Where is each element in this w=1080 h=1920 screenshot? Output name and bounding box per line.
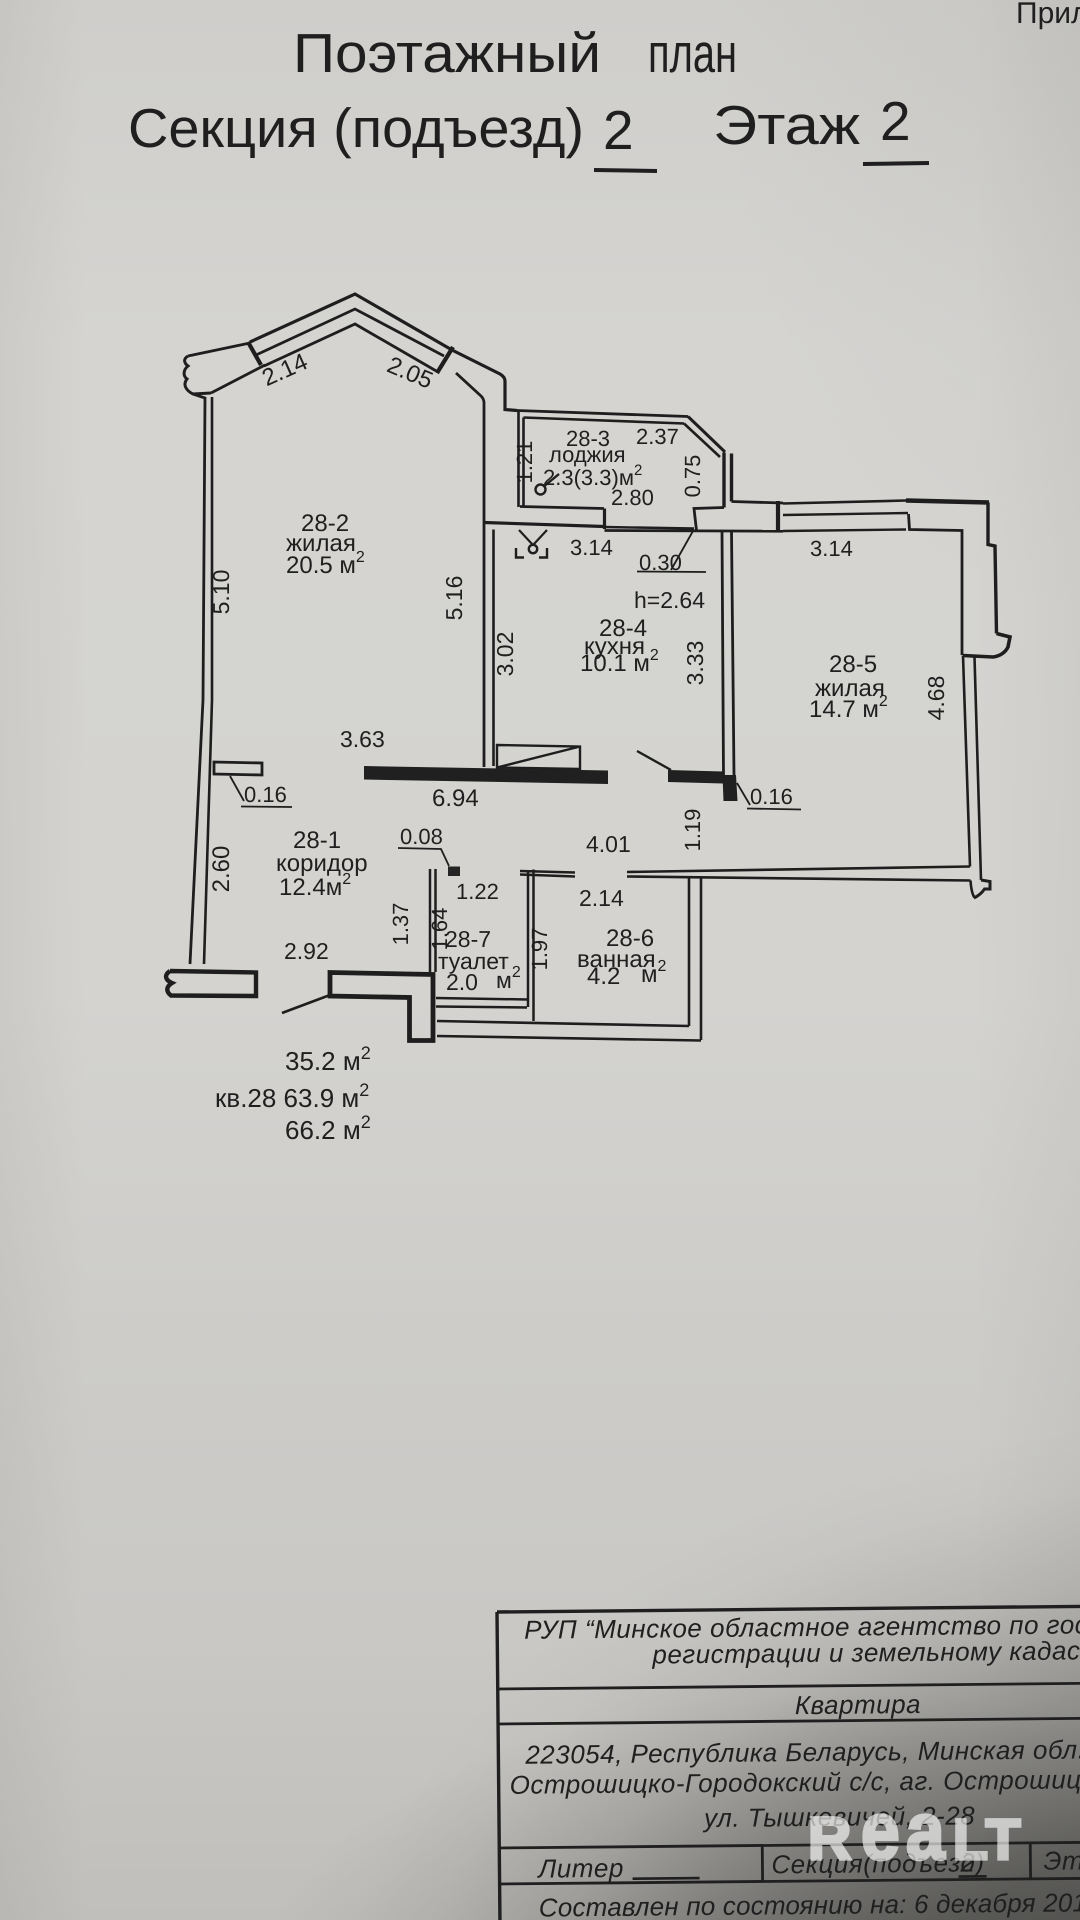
bath top wall left bar (520, 871, 575, 877)
kitchen right wall line 2 (732, 531, 735, 775)
svg-text:Квартира: Квартира (795, 1689, 922, 1720)
svg-text:кв.28 63.9 м2: кв.28 63.9 м2 (215, 1080, 369, 1113)
28-5 right outer wall with jog (988, 503, 997, 634)
kitchen right wall line 1 (722, 531, 724, 775)
0.08 wall stub (448, 867, 460, 877)
loggia bottom outer line (484, 523, 604, 527)
bath bottom wall line 1 (437, 1021, 689, 1026)
svg-text:2.92: 2.92 (284, 938, 329, 964)
svg-text:20.5 м2: 20.5 м2 (286, 549, 365, 579)
bath right wall outer line (700, 877, 703, 1040)
28-5 bottom wall top line (627, 867, 970, 873)
svg-text:0.16: 0.16 (750, 784, 793, 809)
kitchen door stub filled bar (668, 770, 723, 784)
svg-text:1.21: 1.21 (512, 441, 537, 484)
28-5 bottom wall bottom line (627, 877, 971, 881)
svg-text:Секция (подъезд): Секция (подъезд) (128, 97, 584, 159)
underline under first 2 (594, 170, 657, 171)
svg-text:Литер: Литер (536, 1853, 624, 1884)
watermark Realt (808, 1786, 1022, 1877)
bottom-right corner hook (974, 880, 990, 898)
balcony door jamb brackets (516, 548, 547, 558)
4.68 wall outer line (975, 657, 982, 880)
toilet left wall lines (430, 869, 436, 972)
table left border (497, 1612, 500, 1920)
28-5 window end tick (776, 501, 780, 532)
svg-text:3.14: 3.14 (810, 536, 853, 561)
left inner wall line (204, 397, 212, 964)
svg-text:4.68: 4.68 (923, 676, 949, 721)
table divider Секция/Этаж (1029, 1843, 1032, 1879)
break squiggle top-left (184, 356, 211, 394)
svg-text:5.10: 5.10 (208, 570, 234, 615)
svg-text:28-5: 28-5 (829, 651, 877, 678)
entry door leaf (282, 995, 330, 1013)
wall band right slope lower edge (456, 373, 484, 767)
loggia left wall second line (522, 418, 525, 508)
svg-text:3.33: 3.33 (682, 641, 708, 686)
left outer wall line (190, 394, 205, 964)
svg-text:3.02: 3.02 (492, 632, 518, 677)
svg-text:2.37: 2.37 (636, 424, 679, 449)
vent box with diagonal (497, 745, 580, 769)
loggia door circle symbol (536, 485, 546, 495)
pilaster 0.16 outline (214, 762, 262, 775)
svg-text:5.16: 5.16 (441, 576, 467, 621)
svg-text:4.2: 4.2 (587, 963, 620, 990)
wall band left slope upper edge (188, 343, 250, 356)
loggia bottom inner line (520, 507, 604, 509)
28-5 bay foot block (963, 634, 1010, 658)
svg-text:план: план (648, 22, 737, 84)
loggia right wall line 1 (722, 453, 725, 508)
underline under second 2 (863, 163, 929, 164)
corner wall inner L (694, 508, 724, 531)
Литер blank underscore (633, 1877, 700, 1880)
kitchen right wall bottom black block (723, 775, 738, 801)
wire: outer window chevron line (top bay peak) + wall bend to loggia (250, 294, 517, 411)
loggia left wall inner line (517, 411, 520, 508)
svg-text:1.97: 1.97 (527, 928, 552, 971)
svg-text:Этаж: Этаж (1043, 1845, 1080, 1876)
svg-text:Составлен по состоянию на: 6 д: Составлен по состоянию на: 6 декабря 201… (539, 1887, 1080, 1920)
leader 0.16 left (230, 776, 292, 807)
wall band left slope lower edge (211, 365, 265, 393)
loggia top wall inner line (524, 418, 685, 424)
kitchen top sill line to 28-5 (605, 529, 784, 533)
window end tick right (2.05) (437, 347, 453, 373)
svg-text:6.94: 6.94 (432, 785, 479, 812)
28-5 window bottom line (783, 530, 906, 532)
svg-text:0.75: 0.75 (680, 455, 705, 498)
svg-text:2.14: 2.14 (579, 885, 624, 911)
svg-text:2.80: 2.80 (611, 485, 654, 510)
svg-text:коридор: коридор (276, 850, 368, 877)
leader 0.30 (637, 531, 706, 572)
svg-text:3.14: 3.14 (570, 535, 613, 560)
table divider Литер/Секция (761, 1845, 764, 1881)
svg-text:14.7 м2: 14.7 м2 (809, 693, 888, 723)
svg-text:35.2 м2: 35.2 м2 (285, 1043, 371, 1076)
28-5 window middle line (783, 513, 908, 515)
svg-text:LT: LT (953, 1808, 1022, 1872)
table row line below Квартира row (498, 1718, 1080, 1724)
loggia corner cut inner diagonal (684, 424, 720, 458)
corner wall top line (loggia right to window) (732, 502, 784, 504)
room 28-2 right wall / kitchen left wall line 2 (492, 530, 495, 767)
svg-text:0.08: 0.08 (400, 824, 443, 849)
balcony door V diagonals (519, 530, 547, 545)
table row line below agency row (498, 1683, 1080, 1689)
28-5 right wall inner corner lines (909, 514, 963, 655)
svg-text:1.37: 1.37 (388, 903, 413, 946)
loggia right wall line 2 (730, 454, 733, 502)
svg-text:3.63: 3.63 (340, 726, 385, 752)
svg-text:2: 2 (880, 90, 911, 152)
thick L-wall outline at toilet left (330, 973, 433, 1041)
wire: inner window line of bay (264, 324, 438, 372)
table outer top border (497, 1606, 1080, 1612)
bottom-right inner hook (971, 881, 975, 898)
4.68 wall inner line (963, 656, 970, 867)
6.94 wall filled bar (364, 766, 608, 784)
loggia top wall outer line (517, 411, 688, 417)
28-5 top-right thick wall line (906, 501, 989, 503)
svg-text:10.1 м2: 10.1 м2 (580, 647, 659, 677)
svg-text:Этаж: Этаж (713, 94, 860, 156)
loggia door circle stem (545, 474, 559, 486)
balcony door knob circle (529, 545, 537, 553)
svg-text:e: e (861, 1786, 900, 1877)
svg-text:Поэтажный: Поэтажный (293, 22, 601, 84)
svg-text:66.2 м2: 66.2 м2 (285, 1112, 371, 1145)
wire: middle window line of bay (256, 309, 444, 356)
table row line below Литер row (500, 1878, 1080, 1884)
svg-text:1.22: 1.22 (456, 879, 499, 904)
table row line below address row (499, 1842, 1080, 1848)
svg-text:Прило: Прило (1016, 0, 1080, 30)
28-5 window top line (783, 501, 906, 504)
entry squiggle bar bottom-left (166, 971, 256, 996)
loggia corner cut outer diagonal (688, 417, 725, 453)
svg-text:2: 2 (603, 99, 634, 161)
svg-text:Острошицко-Городокский с/с, аг: Острошицко-Городокский с/с, аг. Острошиц… (510, 1764, 1080, 1800)
svg-text:2.60: 2.60 (208, 846, 235, 893)
svg-text:2.0: 2.0 (446, 969, 478, 995)
svg-text:h=2.64: h=2.64 (634, 587, 705, 613)
kitchen top window upper line (605, 527, 695, 529)
svg-text:12.4м2: 12.4м2 (279, 871, 351, 901)
svg-text:регистрации и земельному кадас: регистрации и земельному кадастру (651, 1635, 1080, 1670)
svg-text:1.19: 1.19 (680, 809, 705, 852)
svg-text:4.01: 4.01 (586, 831, 631, 857)
svg-text:лоджия: лоджия (549, 442, 626, 467)
svg-text:0.16: 0.16 (244, 782, 287, 807)
bath right wall inner line (688, 877, 691, 1026)
svg-text:R: R (808, 1805, 851, 1872)
kitchen door leaf (637, 751, 671, 770)
window end tick left (2.14) (248, 342, 261, 365)
bath bottom wall line 2 (437, 1036, 701, 1041)
loggia bottom step connector (603, 509, 606, 530)
svg-text:0.30: 0.30 (639, 550, 682, 575)
toilet bottom wall lines (436, 998, 527, 1008)
toilet right wall lines (528, 870, 534, 1022)
leader 0.08 (398, 848, 449, 866)
underline under секция 2 (959, 1875, 987, 1878)
leader 0.16 right (737, 783, 801, 810)
svg-text:a: a (906, 1786, 945, 1877)
